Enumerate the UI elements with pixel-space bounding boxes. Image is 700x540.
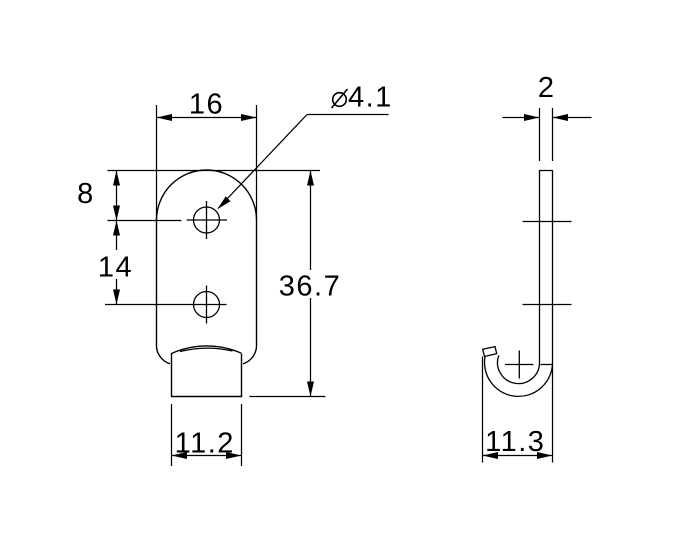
- top extension line at y=170: [108, 170, 321, 172]
- side view top edge: [540, 170, 553, 172]
- dimension 14 line with arrows: [116, 221, 118, 305]
- hook bend tangent tick: [541, 364, 553, 366]
- hole H1 center mark: [187, 201, 228, 239]
- hole H2 center mark: [105, 286, 227, 324]
- dimension 16 arrows: [157, 114, 257, 121]
- extension line at hole1 level: [108, 220, 182, 222]
- side view hole centerline tick 2: [523, 304, 572, 306]
- dimension 36.7 line with arrows: [310, 171, 312, 397]
- dimension 11.2 arrows: [172, 452, 242, 459]
- hole H1 circle: [194, 207, 220, 233]
- svg-text:2: 2: [538, 72, 556, 104]
- dimension 11.3 arrows: [483, 452, 553, 459]
- bend line upper arc on tab: [172, 346, 242, 354]
- dimension 2 lines with outside arrows: [503, 117, 592, 119]
- hook tip end face: [483, 347, 497, 357]
- svg-text:4.1: 4.1: [348, 82, 393, 114]
- dimension 16 line: [157, 117, 257, 119]
- hole H2 circle: [194, 292, 220, 318]
- svg-text:8: 8: [77, 178, 95, 210]
- bottom extension line for 36.7: [250, 396, 326, 398]
- dimension 11.3 extension lines: [483, 357, 553, 463]
- side view outer profile: [485, 170, 553, 396]
- leader line for hole diameter: [218, 115, 389, 209]
- dimension 11.2 extension lines: [172, 404, 242, 466]
- front view plate outline: [156, 170, 256, 397]
- dimension 8 line with arrows: [116, 171, 118, 221]
- dimension 16 extension lines: [157, 105, 257, 220]
- dimension 2 extension lines: [540, 108, 553, 161]
- svg-text:11.3: 11.3: [485, 426, 545, 458]
- dimension 11.3 line: [483, 455, 553, 457]
- svg-text:16: 16: [189, 89, 224, 121]
- hook arc center mark: [505, 351, 534, 379]
- svg-text:14: 14: [98, 252, 133, 284]
- leader arrowhead: [218, 196, 231, 209]
- side view inner profile: [498, 170, 540, 384]
- diameter symbol: [332, 89, 348, 108]
- side view hole centerline tick 1: [523, 221, 572, 223]
- bend line lower arc on tab: [180, 348, 233, 351]
- svg-text:36.7: 36.7: [279, 271, 341, 303]
- svg-text:11.2: 11.2: [175, 428, 235, 460]
- dimension 11.2 line: [172, 455, 242, 457]
